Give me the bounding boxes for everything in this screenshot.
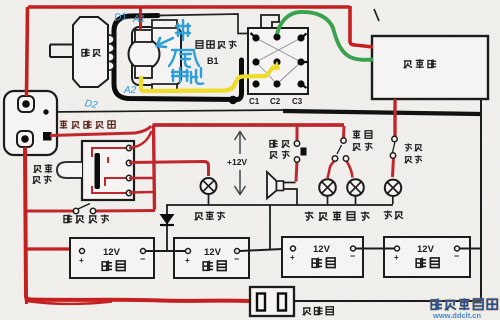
label 喇叭开关 <box>270 139 290 158</box>
label 充电座 <box>303 306 334 315</box>
svg-text:−: − <box>454 251 459 261</box>
brake switch S1 box <box>82 141 134 200</box>
DC contactor K1 box <box>4 91 57 155</box>
battery GB4 <box>384 237 470 277</box>
wire: red brake lamp feed from t2 <box>129 162 209 177</box>
junction blob on enclosure bottom <box>229 96 237 104</box>
housing top step <box>152 20 177 28</box>
battery GB1 <box>70 238 154 278</box>
charging socket X1 <box>250 287 294 316</box>
wire: red turn switch to left lamp <box>328 161 335 178</box>
armature housing <box>132 27 181 85</box>
contactor coil dot <box>43 109 48 114</box>
contactor terminal bottom <box>17 131 33 147</box>
svg-text:D1: D1 <box>114 11 128 24</box>
label 电机 (motor) <box>82 48 101 56</box>
contactor coil square <box>43 132 52 141</box>
headlight lamp L4 <box>385 180 401 204</box>
wire: red battery1 positive feed <box>27 247 79 250</box>
wire: socket to battery minus <box>294 300 481 302</box>
battery GB3 <box>282 237 363 277</box>
wire: red relay t4 link <box>129 191 154 194</box>
svg-text:+: + <box>290 253 295 262</box>
wire: red battery positive trunk (top bus) <box>28 5 350 9</box>
wire: battery series links <box>146 250 185 252</box>
turn lamp right L3 <box>347 179 364 204</box>
wire: red turn switch drop <box>342 126 346 138</box>
wire: red drop to contactor <box>27 7 28 96</box>
armature circle <box>129 39 160 70</box>
brake lamp L1 <box>201 178 217 205</box>
wire: red relay t3 link <box>129 177 153 180</box>
brake switch bar <box>95 153 101 189</box>
label 大灯开关 <box>405 143 423 163</box>
label 直流接触器 <box>60 120 115 128</box>
svg-text:+: + <box>185 256 190 265</box>
battery GB2 <box>174 238 249 278</box>
wire: red drop to brush <box>139 6 142 31</box>
label 倒顺开关 <box>196 40 236 48</box>
enclosure B1 thick rounded outline <box>114 16 242 100</box>
bus to battery joint <box>269 205 271 249</box>
svg-text:−: − <box>350 251 355 261</box>
key switch S5 <box>73 208 78 213</box>
svg-text:A2: A2 <box>123 85 137 96</box>
headlight switch S4 <box>392 136 397 141</box>
svg-text:12V: 12V <box>204 247 222 258</box>
wire: thick black ground bus to controller <box>283 111 481 114</box>
horn H1 <box>267 172 277 199</box>
red corner overshoot scribble <box>27 301 112 304</box>
wire: controller ground drop + right-side vertical to battery minus and charger <box>480 99 482 301</box>
field coil (stator winding) bumps <box>109 35 114 70</box>
switch tab zigzag on top <box>261 15 279 28</box>
svg-text:D2: D2 <box>84 98 99 111</box>
svg-text:12V: 12V <box>417 244 435 255</box>
turn lamp left L2 <box>319 179 336 204</box>
wire: red headlight switch to lamp <box>393 157 394 177</box>
svg-text:C3: C3 <box>292 97 303 106</box>
wire: red horn switch to horn <box>296 161 297 182</box>
wire: thin black bus from contactor dot to right (ground return) <box>46 110 285 112</box>
wire: red controller output down to headlight switch <box>393 99 396 136</box>
lamp ground bus <box>166 204 393 206</box>
wire: green wire switch to controller <box>277 12 373 60</box>
stray tick mark <box>374 9 379 21</box>
wire: red trunk vertical <box>154 125 155 210</box>
svg-text:+: + <box>79 256 84 265</box>
brush bottom <box>135 66 152 78</box>
brake switch inner contacts (red) <box>92 148 129 193</box>
enclosure thin top outline to switch <box>158 14 248 34</box>
wire: red feed into controller <box>350 6 373 47</box>
controller U1 box <box>372 36 488 99</box>
svg-text:C1: C1 <box>249 97 260 106</box>
label 左右转向灯 <box>305 211 370 220</box>
wire: red turn switch to right lamp <box>347 161 353 178</box>
svg-text:www.ddclt.cn: www.ddclt.cn <box>432 311 481 320</box>
motor shaft <box>50 45 73 58</box>
contactor terminal top <box>18 96 34 112</box>
turn switch S3 <box>341 138 346 143</box>
brake switch plunger button <box>57 162 82 178</box>
motor M1 body octagon <box>73 17 108 87</box>
svg-text:12V: 12V <box>313 244 331 255</box>
label 转向开关 <box>353 130 373 150</box>
brake switch terminals <box>126 145 131 195</box>
svg-text:−: − <box>140 254 145 264</box>
reversing switch B1 box <box>248 28 308 94</box>
wire: red key switch line right <box>96 209 155 213</box>
label 钥匙开关 <box>64 214 109 223</box>
svg-text:−: − <box>234 254 239 264</box>
blue handwriting 串励电机 scribble <box>157 20 203 84</box>
watermark 电动车论坛 <box>431 298 497 310</box>
horn switch S2 <box>294 141 299 146</box>
switch contacts 3x3 <box>252 33 304 87</box>
svg-text:A1: A1 <box>132 14 145 25</box>
housing bottom step <box>152 84 177 92</box>
svg-text:C2: C2 <box>270 97 281 106</box>
+12V reference arrow <box>235 132 246 195</box>
yellow arrowhead at switch contact <box>272 61 281 71</box>
svg-text:+: + <box>394 253 399 262</box>
diode D1 <box>166 205 168 250</box>
label 控制器 <box>404 59 437 68</box>
svg-text:+12V: +12V <box>227 157 247 167</box>
wire: red left vertical from contactor to charger <box>25 147 249 301</box>
wire: red relay t1 riser <box>129 131 152 148</box>
label 刹车灯 <box>195 211 225 220</box>
wire: red key switch line left <box>26 210 74 213</box>
wire: red contactor to trunk <box>50 126 151 136</box>
label 刹车开关 <box>33 164 53 183</box>
wire: red main accessory bus <box>153 123 345 127</box>
wire: yellow wire armature to switch <box>141 66 274 91</box>
switch contact corner tails <box>251 33 308 88</box>
svg-text:12V: 12V <box>103 247 121 258</box>
thin crossover links inside switch <box>256 38 301 84</box>
label 大灯 <box>384 210 403 218</box>
wire: red horn switch drop <box>296 124 299 141</box>
brush top <box>135 30 152 42</box>
svg-text:B1: B1 <box>207 56 219 66</box>
